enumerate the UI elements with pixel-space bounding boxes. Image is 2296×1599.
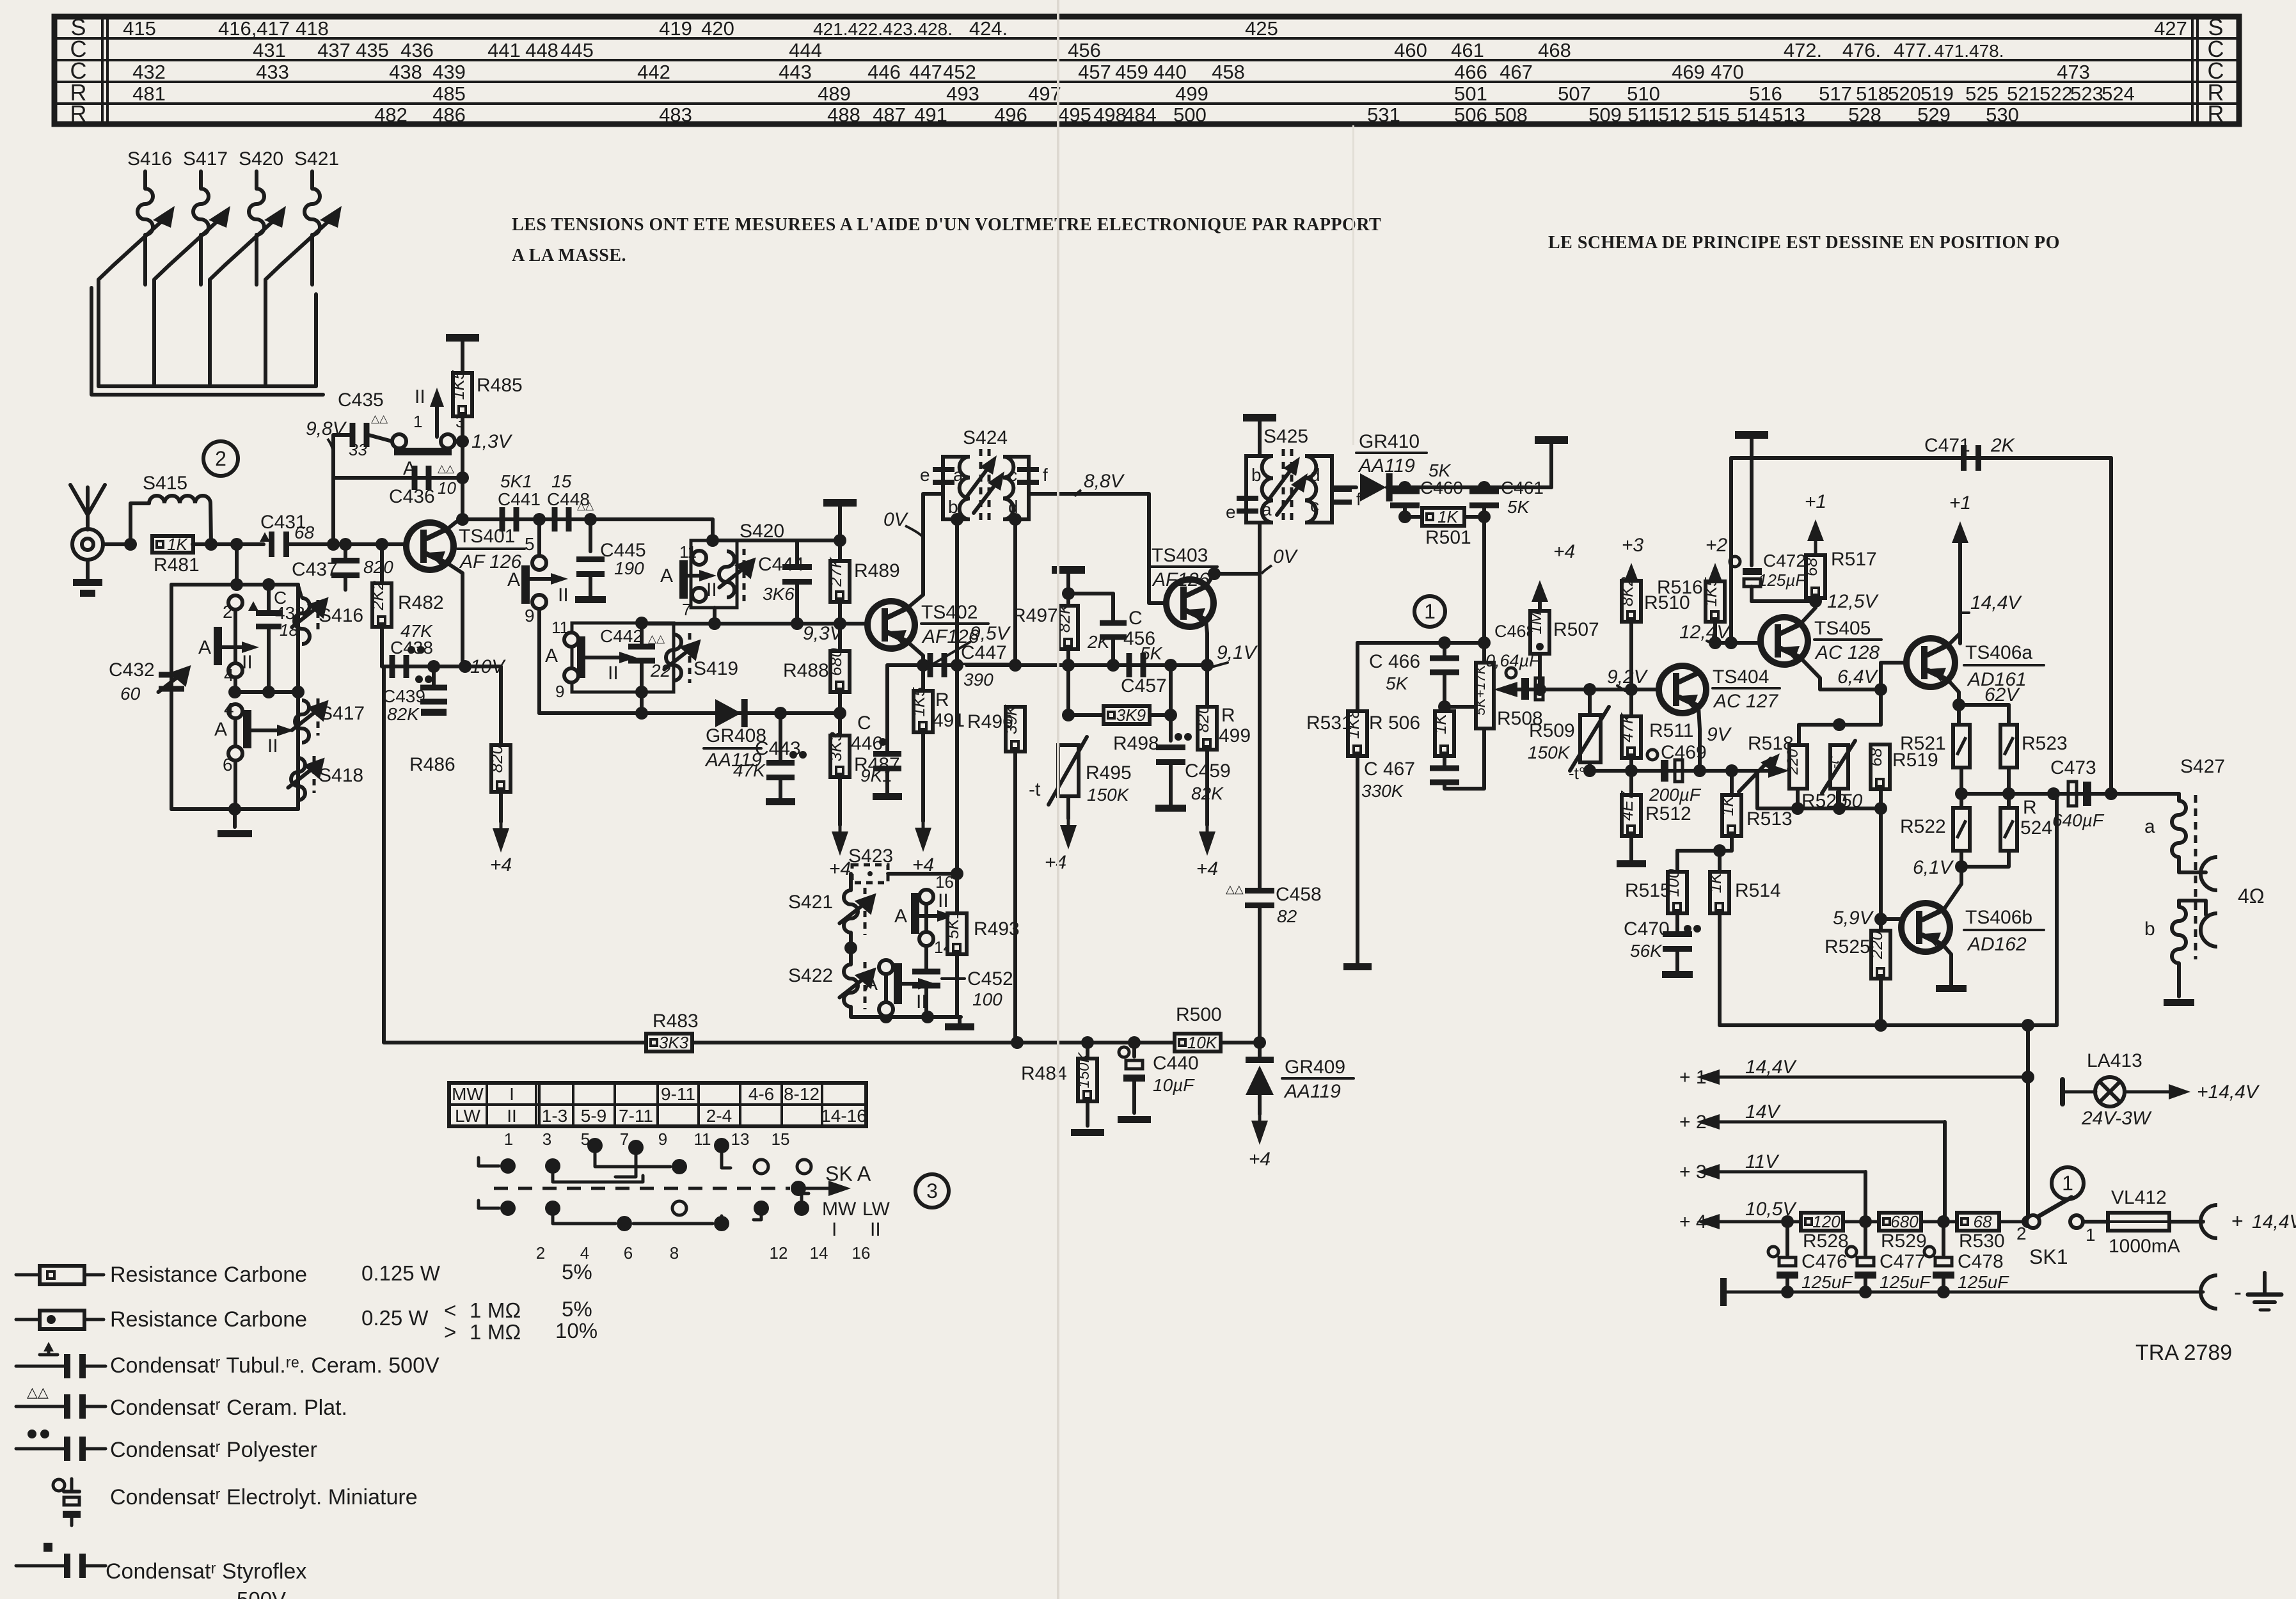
wire C446 stem (885, 665, 889, 752)
svg-text:R: R (2208, 100, 2224, 127)
resistor R497 (1054, 602, 1078, 649)
svg-text:1K: 1K (1718, 794, 1737, 815)
svg-text:10%: 10% (555, 1319, 598, 1343)
supply bar R497-C456 (1052, 566, 1085, 574)
wire R512 top (1629, 771, 1633, 795)
capacitor C444 (782, 564, 812, 585)
svg-text:A: A (507, 569, 520, 590)
svg-text:C442: C442 (600, 626, 643, 646)
svg-text:2K: 2K (1087, 632, 1111, 652)
wire R501 line (1405, 515, 1484, 519)
diode GR408 (715, 699, 748, 727)
wire R489 to R488 (838, 602, 842, 651)
capacitor S425 e (1237, 496, 1258, 514)
terminal 4 lower (228, 704, 242, 718)
junction (228, 686, 241, 698)
wire mid rail to C473 (1961, 792, 2084, 796)
svg-text:1K: 1K (1706, 872, 1725, 893)
svg-text:R: R (2023, 797, 2037, 818)
svg-text:472.: 472. (1784, 39, 1822, 61)
svg-text:a: a (2144, 816, 2155, 837)
svg-text:9: 9 (658, 1130, 667, 1149)
wire to TS406b base (1879, 808, 1883, 919)
svg-text:TRA 2789: TRA 2789 (2135, 1341, 2232, 1365)
svg-text:820: 820 (1193, 704, 1212, 732)
junction (459, 660, 471, 673)
svg-text:466: 466 (1454, 61, 1487, 83)
svg-text:b: b (1251, 465, 1262, 485)
junction (124, 538, 137, 551)
svg-text:C444: C444 (758, 554, 804, 575)
svg-text:100: 100 (972, 989, 1002, 1009)
svg-text:b: b (2144, 918, 2155, 940)
svg-text:190: 190 (614, 558, 644, 578)
svg-text:483: 483 (659, 104, 692, 126)
wire earth stem (2263, 1273, 2267, 1292)
legend resistor 0.25W (16, 1311, 104, 1329)
block S420 (691, 540, 737, 608)
svg-text:C: C (1128, 608, 1143, 629)
supply bar S425 (1243, 414, 1276, 421)
ground C470 (1662, 971, 1693, 978)
svg-text:8-12: 8-12 (784, 1084, 819, 1104)
wire TS406a collector (1947, 633, 1960, 646)
wire C478 bottom (1942, 1279, 1945, 1292)
svg-text:R498: R498 (1113, 733, 1159, 754)
svg-text:12,4V: 12,4V (1679, 622, 1731, 643)
svg-text:R514: R514 (1735, 880, 1781, 901)
wire C445 bottom (589, 576, 592, 596)
svg-text:+4: +4 (1553, 541, 1575, 562)
jack contact upper (2201, 857, 2217, 890)
wire C431 to TS401 base (289, 542, 405, 546)
svg-text:125uF: 125uF (1801, 1272, 1853, 1292)
junction (228, 803, 241, 815)
junction (635, 686, 648, 698)
svg-text:S421: S421 (788, 892, 833, 913)
wire S421 contacts (924, 904, 928, 932)
core S427 (2194, 795, 2197, 959)
svg-text:200µF: 200µF (1649, 785, 1702, 805)
svg-text:9,2V: 9,2V (1607, 666, 1649, 688)
svg-text:820: 820 (487, 744, 506, 773)
wire R499 top (1205, 665, 1209, 707)
svg-text:R486: R486 (409, 754, 455, 775)
svg-text:2: 2 (223, 602, 233, 622)
svg-text:>: > (444, 1320, 456, 1344)
switch bar A-II upper (214, 627, 222, 665)
junction (1625, 683, 1638, 696)
svg-text:C460: C460 (1420, 478, 1463, 498)
wire feedback loop (1720, 794, 2057, 1025)
svg-text:S416: S416 (127, 148, 172, 169)
svg-text:II: II (558, 585, 569, 606)
svg-text:A: A (865, 973, 878, 995)
junction (1709, 636, 1722, 649)
svg-text:5K1: 5K1 (500, 471, 532, 491)
svg-text:e: e (1226, 502, 1236, 522)
supply bar R489 (823, 499, 857, 507)
supply +4 R507 (1532, 580, 1548, 602)
wire S420 bottom stem (713, 608, 717, 624)
wire R519 bottom (1879, 789, 1883, 808)
svg-text:470: 470 (1711, 61, 1744, 83)
capacitor C447 (928, 653, 947, 677)
svg-text:5-9: 5-9 (581, 1106, 606, 1126)
wire S427 a top (2177, 794, 2181, 801)
svg-text:S420: S420 (740, 521, 784, 542)
arrow S418 (288, 758, 324, 788)
svg-text:486: 486 (432, 104, 466, 126)
svg-text:125uF: 125uF (1958, 1272, 2009, 1292)
wire R486 top (499, 666, 503, 745)
svg-text:R529: R529 (1881, 1231, 1927, 1252)
svg-text:443: 443 (779, 61, 812, 83)
switch arrow S421 (919, 910, 954, 922)
svg-text:3: 3 (455, 412, 464, 431)
junction (1781, 1215, 1794, 1228)
wire AGC line (1358, 641, 1484, 645)
junction (1478, 481, 1491, 494)
wire collector column (461, 338, 464, 519)
junction (1533, 683, 1546, 696)
svg-text:R501: R501 (1425, 527, 1471, 548)
capacitor C473 (2068, 782, 2077, 806)
svg-text:16: 16 (852, 1243, 871, 1263)
wire a to jack (2179, 857, 2206, 872)
svg-text:C432: C432 (109, 659, 155, 681)
svg-text:2K2: 2K2 (368, 580, 387, 611)
terminal 9 S419 (564, 668, 578, 682)
wire C444 top stem (795, 540, 799, 565)
arrow S420 (719, 558, 756, 588)
ground C445 (575, 596, 606, 603)
resistor R485 (448, 370, 472, 416)
svg-text:13: 13 (731, 1130, 750, 1149)
svg-text:14,4V: 14,4V (1745, 1057, 1797, 1078)
wire R487 bottom (838, 777, 842, 825)
svg-text:△△: △△ (27, 1384, 49, 1400)
wire C470 top (1675, 913, 1679, 933)
svg-text:2K: 2K (1990, 435, 2016, 456)
junction (230, 538, 243, 551)
junction (584, 513, 597, 526)
wire C456 bottom stem (1111, 639, 1115, 665)
wire block ground stem (233, 809, 237, 827)
svg-text:II: II (267, 736, 278, 757)
svg-text:AC 127: AC 127 (1713, 691, 1778, 712)
wire contact3 to node (455, 439, 463, 443)
svg-text:SK A: SK A (825, 1162, 871, 1185)
svg-text:469: 469 (1672, 61, 1705, 83)
svg-text:+4: +4 (1249, 1149, 1271, 1170)
svg-text:33: 33 (349, 440, 367, 459)
wire R513 top (1730, 771, 1734, 795)
svg-text:R523: R523 (2022, 733, 2068, 754)
svg-text:509: 509 (1588, 104, 1622, 126)
svg-text:8: 8 (670, 1243, 679, 1263)
svg-text:9,5V: 9,5V (970, 623, 1011, 644)
svg-text:11: 11 (679, 542, 697, 562)
core S425 (1282, 449, 1285, 526)
junction (844, 941, 857, 954)
band switch table entries (452, 1084, 867, 1126)
capacitor C469 (1647, 750, 1658, 760)
wire C452 top (924, 961, 928, 970)
svg-text:1K: 1K (1437, 507, 1459, 526)
svg-text:f: f (1043, 465, 1048, 485)
svg-text:AC 128: AC 128 (1814, 642, 1880, 663)
junction (262, 686, 275, 698)
svg-text:1K5: 1K5 (1701, 577, 1720, 607)
svg-text:c: c (1310, 496, 1319, 516)
resistor R525 (1867, 931, 1890, 979)
supply +1 TS406a (1952, 521, 1968, 543)
wire S416 top (298, 585, 302, 598)
wire contact14 down (924, 946, 928, 961)
svg-text:R: R (935, 689, 949, 711)
leader 9,2V (1617, 686, 1625, 691)
S425 right winding (1305, 456, 1332, 523)
leader 0V TS402 (905, 526, 922, 536)
svg-text:15: 15 (772, 1130, 790, 1149)
wire SK1 to fuse (2083, 1220, 2108, 1224)
svg-text:R485: R485 (477, 375, 523, 396)
svg-text:C478: C478 (1958, 1251, 2004, 1272)
svg-text:A: A (198, 637, 211, 658)
svg-text:14-16: 14-16 (821, 1106, 867, 1126)
wire C446 bottom (885, 770, 889, 793)
junction (1693, 764, 1706, 777)
svg-text:514: 514 (1737, 104, 1770, 126)
wire C473 to S427 (2091, 792, 2179, 796)
wire S427 b bottom (2177, 963, 2181, 996)
svg-text:493: 493 (946, 83, 979, 105)
junction (708, 617, 721, 630)
wire C459 bottom (1169, 764, 1173, 805)
svg-text:2: 2 (2016, 1224, 2027, 1243)
svg-text:+4: +4 (1196, 858, 1218, 879)
wire S421 to S422 (849, 933, 853, 965)
wire TS404 emitter (1698, 707, 1700, 771)
junction (774, 707, 787, 720)
svg-text:431: 431 (253, 39, 286, 61)
svg-text:9,8V: 9,8V (306, 418, 347, 439)
svg-text:24V-3W: 24V-3W (2081, 1108, 2152, 1129)
svg-text:421.422.423.428.: 421.422.423.428. (813, 19, 953, 39)
ground C439 (421, 709, 447, 716)
wire TS401 emitter (446, 562, 463, 666)
diode GR409 (1246, 1057, 1274, 1095)
thermistor R495 (1058, 745, 1079, 796)
svg-text:3: 3 (926, 1179, 938, 1202)
svg-text:82: 82 (1277, 906, 1297, 926)
wire R498 line (1068, 713, 1171, 717)
wire R515 top stem (1675, 851, 1679, 872)
svg-text:5K: 5K (1386, 673, 1409, 693)
svg-text:390: 390 (963, 670, 994, 689)
svg-text:150K: 150K (1075, 1052, 1093, 1088)
leader 12,4V (1707, 641, 1715, 645)
capacitor S424 e (933, 467, 954, 485)
junction (1809, 595, 1822, 608)
wire R489 top (838, 503, 842, 561)
switch bar A-II mid (521, 565, 530, 604)
svg-text:a: a (953, 465, 963, 485)
svg-text:47K: 47K (733, 760, 766, 780)
wire collector to S425 e (1214, 572, 1260, 576)
svg-text:TS402: TS402 (921, 602, 978, 623)
svg-text:II: II (415, 386, 425, 407)
wire R522 bottom (1960, 851, 1963, 867)
coil group bus (91, 288, 323, 395)
wire R491 top (921, 665, 925, 691)
svg-text:C471: C471 (1924, 435, 1970, 456)
wire S423 to R493 col (888, 872, 957, 876)
svg-text:AA119: AA119 (1283, 1081, 1341, 1102)
svg-text:485: 485 (432, 83, 466, 105)
svg-text:8K2: 8K2 (1617, 576, 1636, 606)
svg-text:c: c (1008, 465, 1017, 485)
wire R482 column (380, 544, 384, 666)
legend cap styroflex (16, 1543, 106, 1578)
svg-text:444: 444 (789, 39, 822, 61)
wire R514 top stem (1718, 851, 1722, 872)
svg-text:SK1: SK1 (2029, 1245, 2068, 1268)
wire detector line GR408 (539, 711, 840, 715)
svg-text:498: 498 (1093, 104, 1127, 126)
junction (951, 659, 963, 672)
wire antenna to node (103, 542, 131, 546)
battery contact - (2201, 1275, 2217, 1309)
resistor R501 (1422, 507, 1464, 526)
svg-text:4: 4 (224, 699, 234, 719)
core S424 (979, 449, 983, 526)
svg-text:489: 489 (818, 83, 851, 105)
svg-text:C436: C436 (389, 486, 435, 507)
svg-text:419: 419 (659, 17, 692, 40)
junction (1725, 636, 1738, 649)
wire C460 bottom (1403, 507, 1407, 517)
junction (1625, 764, 1638, 777)
wire R524 bottom (1961, 851, 2009, 867)
junction (327, 538, 340, 551)
wire to R519 group (1879, 689, 1883, 725)
junction (2105, 787, 2118, 800)
svg-text:447: 447 (909, 61, 942, 83)
svg-text:4: 4 (224, 665, 234, 685)
wire supply stem R497 (1066, 570, 1070, 606)
svg-text:521: 521 (2007, 83, 2040, 105)
terminal 11 S419 (564, 633, 578, 647)
svg-text:0.125 W: 0.125 W (361, 1261, 441, 1285)
svg-text:446: 446 (851, 733, 883, 754)
svg-text:R513: R513 (1746, 808, 1793, 830)
svg-text:+2: +2 (1706, 535, 1728, 556)
svg-text:467: 467 (1500, 61, 1533, 83)
svg-text:484: 484 (1123, 104, 1157, 126)
svg-text:5K: 5K (1140, 643, 1163, 663)
supply +1 R517 (1807, 519, 1824, 555)
svg-text:1K5: 1K5 (909, 687, 928, 717)
wire C442 bottom stem (640, 661, 644, 692)
svg-text:471.478.: 471.478. (1935, 41, 2004, 61)
resistor R528 (1801, 1212, 1843, 1231)
terminal S422a (879, 960, 893, 974)
variable resistor R518 arrow (1739, 753, 1789, 792)
svg-text:15: 15 (551, 471, 572, 491)
terminal 6 (228, 746, 242, 760)
wire +1 riser (2026, 1025, 2030, 1077)
wire C478 top (1942, 1222, 1945, 1255)
wire TS403 emitter (1206, 620, 1207, 665)
wire R514 R515 top (1677, 849, 1732, 853)
svg-text:448: 448 (525, 39, 558, 61)
switch bar S419 (577, 636, 585, 678)
svg-text:A: A (214, 719, 227, 740)
junction (2022, 1071, 2034, 1083)
svg-text:MW: MW (452, 1084, 484, 1104)
svg-text:R495: R495 (1086, 762, 1132, 784)
wire C466 top (1443, 643, 1446, 656)
wire C466 to R508 (1445, 705, 1476, 709)
wire C471 line (1731, 456, 2111, 460)
switch arrow mid (530, 573, 568, 585)
svg-text:5K1: 5K1 (943, 910, 962, 939)
svg-text:A: A (660, 565, 673, 587)
svg-text:4-6: 4-6 (748, 1084, 774, 1104)
supply +4 R486 (493, 822, 509, 853)
svg-text:11: 11 (694, 1130, 711, 1149)
svg-text:I: I (509, 1084, 514, 1104)
svg-text:+ 1: + 1 (1679, 1067, 1707, 1088)
svg-text:R516: R516 (1657, 577, 1703, 598)
antenna connector (72, 529, 103, 560)
svg-text:II: II (608, 663, 619, 684)
svg-text:7: 7 (682, 600, 691, 619)
svg-text:+ 3: + 3 (1679, 1162, 1707, 1183)
svg-text:507: 507 (1558, 83, 1591, 105)
wire C471 left leg (1729, 458, 1733, 643)
junction (1478, 510, 1491, 523)
resistor R483 (646, 1033, 692, 1052)
svg-text:4E7: 4E7 (1617, 790, 1636, 821)
fuse VL412 (2108, 1213, 2169, 1231)
svg-text:497: 497 (1028, 83, 1061, 105)
svg-text:+4: +4 (1045, 852, 1066, 873)
svg-text:R484: R484 (1021, 1063, 1067, 1084)
resistor R506 (1430, 711, 1454, 756)
callout 2 (203, 441, 238, 476)
junction (1062, 587, 1075, 600)
wire C472 top stem (1750, 435, 1754, 565)
junction (1081, 1036, 1094, 1049)
wire C477 top (1864, 1222, 1867, 1255)
adjustable coil S420 (210, 148, 286, 384)
junction (1164, 709, 1177, 721)
svg-text:9-11: 9-11 (661, 1084, 695, 1104)
svg-text:Condensatʳ Styroflex: Condensatʳ Styroflex (106, 1559, 306, 1584)
wire AGC to TS404 (1517, 688, 1658, 691)
wire down to tuning bus (235, 544, 239, 585)
wire IF det column (1258, 574, 1262, 889)
svg-text:S424: S424 (963, 427, 1008, 448)
svg-text:427: 427 (2154, 17, 2187, 40)
capacitor C432 (159, 672, 184, 692)
switch SK1 blade (2038, 1197, 2071, 1217)
wire R497 C456 top (1068, 592, 1113, 595)
wire TS405 collector (1800, 601, 1816, 624)
